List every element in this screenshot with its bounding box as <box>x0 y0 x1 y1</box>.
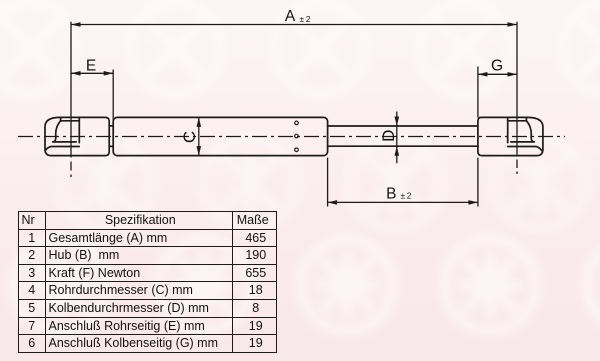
right eyelet vertical center line <box>516 22 518 157</box>
svg-text:G: G <box>491 57 503 74</box>
right eyelet inner mid line <box>511 141 534 143</box>
piston rod <box>328 126 478 146</box>
horizontal center line <box>18 136 565 138</box>
svg-text:B: B <box>386 186 396 203</box>
watermark row 1 <box>0 2 600 94</box>
left eyelet inner slot vertical <box>78 117 80 142</box>
svg-text:A: A <box>285 8 296 25</box>
left eyelet inner mid line <box>53 141 76 143</box>
vent dots on tube <box>295 121 299 152</box>
cylinder tube <box>113 117 327 155</box>
left eyelet inner hook curve <box>53 121 61 142</box>
dimension B line <box>328 201 478 203</box>
svg-text:±2: ±2 <box>401 190 414 200</box>
dimension E line <box>71 72 113 74</box>
G extension line <box>477 67 479 118</box>
dimension C line <box>198 117 200 155</box>
watermark row 2 <box>59 137 586 229</box>
right eyelet inner top line <box>508 117 527 120</box>
dimension G line <box>478 73 517 75</box>
left eyelet inner top line <box>61 117 80 120</box>
svg-text:C: C <box>180 131 199 143</box>
dimension A line <box>71 24 517 26</box>
specification table <box>18 211 277 353</box>
B extension lines <box>328 158 478 207</box>
svg-text:D: D <box>379 130 398 142</box>
watermark row 3 <box>14 239 600 331</box>
svg-text:±2: ±2 <box>300 14 313 24</box>
right eyelet inner lower line <box>508 147 542 151</box>
left eyelet block outline <box>45 117 109 155</box>
dimension D line <box>396 112 398 164</box>
left eyelet inner lower line <box>45 147 79 151</box>
left eyelet vertical center line <box>70 22 72 158</box>
neck between eyelet and tube <box>109 126 113 146</box>
right eyelet inner hook curve <box>526 121 534 142</box>
right eyelet block outline <box>478 117 543 155</box>
E extension line <box>112 70 114 124</box>
right eyelet inner slot vertical <box>507 117 509 142</box>
svg-text:E: E <box>86 57 96 74</box>
